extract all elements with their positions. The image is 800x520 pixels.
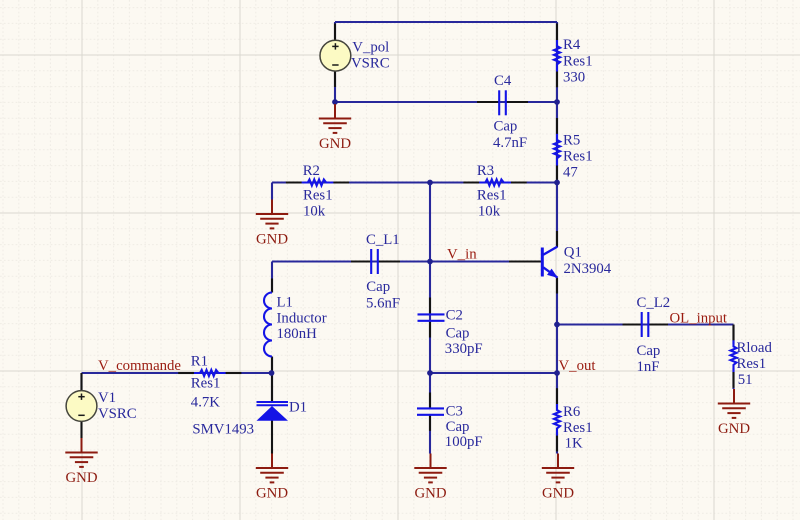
- svg-text:R3: R3: [477, 163, 494, 179]
- svg-text:180nH: 180nH: [277, 326, 318, 342]
- svg-text:GND: GND: [718, 421, 750, 437]
- svg-text:R4: R4: [563, 37, 581, 53]
- svg-text:GND: GND: [319, 136, 351, 152]
- svg-text:51: 51: [738, 372, 753, 388]
- svg-text:C_L1: C_L1: [366, 232, 400, 248]
- svg-text:GND: GND: [414, 486, 446, 502]
- svg-text:Cap: Cap: [494, 119, 518, 135]
- svg-text:4.7K: 4.7K: [191, 395, 220, 411]
- svg-text:47: 47: [563, 165, 578, 181]
- svg-text:1K: 1K: [565, 436, 583, 452]
- svg-text:V_in: V_in: [447, 246, 477, 262]
- svg-text:V_pol: V_pol: [352, 39, 389, 55]
- svg-text:Rload: Rload: [737, 340, 773, 356]
- svg-text:5.6nF: 5.6nF: [366, 295, 400, 311]
- svg-text:GND: GND: [256, 486, 288, 502]
- svg-text:Res1: Res1: [737, 356, 767, 372]
- svg-text:R6: R6: [563, 404, 580, 420]
- svg-text:2N3904: 2N3904: [564, 261, 612, 277]
- svg-text:C4: C4: [494, 73, 512, 89]
- svg-text:VSRC: VSRC: [98, 406, 137, 422]
- svg-text:V_out: V_out: [559, 358, 597, 374]
- svg-text:Cap: Cap: [637, 343, 661, 359]
- svg-text:100pF: 100pF: [445, 434, 483, 450]
- svg-text:Res1: Res1: [563, 53, 593, 69]
- svg-text:330: 330: [563, 70, 585, 86]
- svg-text:Q1: Q1: [564, 244, 582, 260]
- svg-text:V_commande: V_commande: [98, 358, 181, 374]
- svg-text:Cap: Cap: [446, 325, 470, 341]
- svg-text:GND: GND: [256, 232, 288, 248]
- svg-text:C3: C3: [446, 404, 463, 420]
- svg-text:R2: R2: [303, 163, 320, 179]
- svg-text:R1: R1: [191, 354, 208, 370]
- svg-text:Res1: Res1: [191, 376, 221, 392]
- svg-text:Cap: Cap: [366, 279, 390, 295]
- svg-text:R5: R5: [563, 133, 580, 149]
- svg-text:SMV1493: SMV1493: [192, 422, 254, 438]
- svg-text:GND: GND: [542, 486, 574, 502]
- svg-text:4.7nF: 4.7nF: [493, 135, 527, 151]
- svg-text:330pF: 330pF: [445, 341, 483, 357]
- svg-text:10k: 10k: [478, 204, 501, 220]
- svg-text:GND: GND: [65, 470, 97, 486]
- svg-text:V1: V1: [98, 390, 116, 406]
- svg-text:10k: 10k: [303, 204, 326, 220]
- svg-text:OL_input: OL_input: [670, 310, 728, 326]
- svg-text:Res1: Res1: [477, 188, 507, 204]
- svg-text:D1: D1: [289, 400, 307, 416]
- svg-text:Res1: Res1: [563, 149, 593, 165]
- svg-text:Inductor: Inductor: [277, 310, 327, 326]
- svg-text:Res1: Res1: [563, 420, 593, 436]
- svg-text:C2: C2: [446, 308, 463, 324]
- svg-text:1nF: 1nF: [637, 359, 660, 375]
- svg-text:L1: L1: [277, 294, 293, 310]
- svg-text:VSRC: VSRC: [351, 56, 390, 72]
- svg-text:C_L2: C_L2: [637, 295, 671, 311]
- svg-text:Cap: Cap: [446, 419, 470, 435]
- svg-text:Res1: Res1: [303, 188, 333, 204]
